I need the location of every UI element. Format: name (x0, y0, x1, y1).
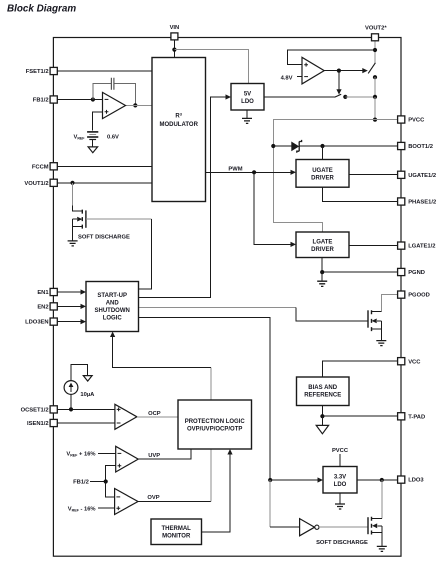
wire comparator arrow to lower switch (338, 71, 340, 90)
op-amp UVP comparator (116, 446, 139, 472)
op-amp OCP comparator (115, 404, 137, 429)
pin VIN (171, 33, 178, 40)
node BOOT junction (320, 144, 324, 148)
wire VOUT2* stub (374, 41, 376, 63)
svg-text:PWM: PWM (228, 166, 242, 172)
wire VREF+16% to UVP (98, 452, 116, 454)
svg-text:VOUT1/2: VOUT1/2 (24, 181, 48, 187)
svg-text:PHASE1/2: PHASE1/2 (408, 200, 436, 206)
pin LDO3 (398, 476, 405, 483)
wire UGATE driver output (349, 174, 398, 176)
svg-text:VCC: VCC (408, 359, 421, 365)
wire FB down to OVP - input (106, 482, 115, 497)
wire start-up to LDO3 enable (139, 317, 271, 480)
wire LGATE ground / PGND line (322, 258, 397, 273)
wire ISEN1/2 input (57, 422, 115, 424)
wire OCP output (137, 416, 178, 418)
wire 3.3V LDO output to LDO3 pin (357, 479, 398, 481)
wire FB1/2 node (90, 481, 106, 483)
transistor Q2 PGOOD FET (372, 312, 382, 341)
pin PVCC (398, 116, 405, 123)
wire thermal monitor to protection logic (202, 454, 231, 532)
wire BOOT1/2 line (299, 145, 398, 147)
wire soft discharge gate (86, 218, 151, 220)
node bias ground junction (320, 414, 324, 418)
svg-text:EN1: EN1 (37, 290, 49, 296)
svg-text:UGATE1/2: UGATE1/2 (408, 173, 436, 179)
wire start-up to 5V LDO enable (139, 97, 226, 298)
block R3 MODULATOR (152, 58, 206, 202)
ground under LGATE driver (321, 272, 323, 281)
wire PHASE line (323, 187, 398, 201)
wire EN2 arrow (57, 305, 81, 307)
svg-text:VIN: VIN (170, 25, 180, 31)
wire UVP output to protection logic (138, 449, 191, 459)
chip boundary frame (53, 38, 401, 557)
switch S2 blade (335, 94, 342, 97)
svg-text:SOFT DISCHARGE: SOFT DISCHARGE (316, 540, 368, 546)
node error amp output junction (133, 103, 137, 107)
node OCSET junction (69, 407, 73, 411)
battery VREF 0.6V (87, 131, 98, 133)
wire start-up gray output to PGOOD FET gate (139, 307, 296, 309)
svg-text:EN2: EN2 (37, 305, 48, 311)
svg-text:VREF - 16%: VREF - 16% (68, 506, 96, 512)
svg-text:REFERENCE: REFERENCE (304, 393, 341, 399)
svg-text:LGATE1/2: LGATE1/2 (408, 244, 435, 250)
wire comparator output to switch (324, 70, 362, 72)
ground under PGOOD FET (376, 341, 386, 346)
svg-text:T-PAD: T-PAD (408, 414, 425, 420)
node FB1/2 junction (104, 479, 108, 483)
wire switch S2 to rail (345, 96, 375, 98)
op-amp OVP comparator (115, 489, 138, 515)
wire VOUT down to soft discharge FET (72, 183, 74, 206)
node PVCC rail junction (373, 95, 377, 99)
block START-UP AND SHUTDOWN LOGIC (86, 282, 139, 332)
ground analog under bias (321, 416, 323, 425)
node LDO3EN junction (268, 478, 272, 482)
wire 4.8V comparator + input from VOUT2* (288, 50, 375, 65)
svg-text:LDO3EN: LDO3EN (25, 320, 49, 326)
pin BOOT1/2 (398, 142, 405, 149)
block 3.3V LDO (323, 467, 357, 494)
svg-text:4.8V: 4.8V (281, 76, 293, 82)
wire rail down to PVCC line (374, 97, 376, 120)
svg-text:0.6V: 0.6V (107, 135, 119, 141)
svg-text:LDO: LDO (334, 482, 347, 488)
ground under 5V LDO (246, 110, 248, 118)
svg-text:BOOT1/2: BOOT1/2 (408, 144, 433, 150)
svg-text:AND: AND (106, 301, 120, 307)
svg-text:DRIVER: DRIVER (311, 176, 334, 182)
wire error amp output to modulator (126, 104, 153, 106)
inverter U2 (300, 519, 315, 536)
block PROTECTION LOGIC (178, 400, 252, 449)
pin VOUT2* (372, 34, 379, 41)
svg-text:Block Diagram: Block Diagram (7, 3, 76, 14)
wire OVP output to protection logic (138, 501, 211, 503)
svg-text:3.3V: 3.3V (334, 474, 346, 480)
op-amp error amplifier (103, 92, 126, 118)
svg-text:VREF: VREF (73, 134, 85, 140)
ground analog under VREF (92, 140, 94, 147)
wire bias to T-PAD (322, 406, 397, 417)
pin EN1 (50, 288, 57, 295)
current source 10uA (70, 394, 72, 409)
wire PWM to LGATE driver (254, 172, 291, 244)
node PVCC line junction (373, 118, 377, 122)
ground under Q3 (377, 546, 387, 551)
pin PGND (398, 268, 405, 275)
wire PVCC pin line (273, 120, 397, 232)
svg-text:SOFT DISCHARGE: SOFT DISCHARGE (78, 234, 130, 240)
pin ISEN1/2 (50, 419, 57, 426)
wire protection logic to start-up shutdown (210, 367, 212, 400)
svg-text:FB1/2: FB1/2 (33, 98, 49, 104)
svg-text:PVCC: PVCC (332, 448, 349, 454)
wire PWM from modulator (206, 171, 291, 173)
block THERMAL MONITOR (151, 519, 202, 545)
pin VOUT1/2 (50, 179, 57, 186)
svg-text:MODULATOR: MODULATOR (159, 122, 198, 128)
svg-text:PGOOD: PGOOD (408, 293, 430, 299)
switch S1 blade (368, 63, 375, 74)
wire VOUT1/2 to modulator (57, 182, 152, 184)
svg-text:MONITOR: MONITOR (162, 534, 191, 540)
wire gate control from start-up logic (139, 219, 152, 289)
wire PVCC stub into 3.3V LDO (339, 454, 341, 467)
node PWM junction (252, 170, 256, 174)
op-amp 4.8V comparator (302, 57, 324, 84)
svg-text:PROTECTION LOGIC: PROTECTION LOGIC (185, 419, 246, 425)
wire down to inverter input (269, 480, 271, 527)
wire BOOT to UGATE driver top (322, 146, 324, 160)
node VIN branch (172, 48, 176, 52)
block 5V LDO (231, 84, 264, 111)
svg-text:UGATE: UGATE (312, 168, 333, 174)
wire VIN to 5V LDO (174, 50, 248, 84)
wire 5V LDO output (264, 96, 335, 98)
svg-text:PVCC: PVCC (408, 118, 425, 124)
wire VCC pin to bias (322, 361, 397, 377)
pin FSET1/2 (50, 67, 57, 74)
wire FCCM to modulator (57, 165, 152, 167)
wire switch S1 to rail (374, 77, 376, 97)
node diode anode junction (271, 144, 275, 148)
wire 4.8V stub (297, 76, 302, 78)
wire inverter output to Q3 gate (319, 526, 368, 528)
wire EN1 arrow (57, 291, 81, 293)
pin PHASE1/2 (398, 198, 405, 205)
svg-text:ISEN1/2: ISEN1/2 (27, 421, 49, 427)
svg-text:DRIVER: DRIVER (311, 247, 334, 253)
svg-text:FSET1/2: FSET1/2 (26, 69, 49, 75)
wire PGOOD pin to FET drain (381, 295, 397, 312)
pin LGATE1/2 (398, 242, 405, 249)
svg-text:OVP/UVP/OCP/OTP: OVP/UVP/OCP/OTP (187, 427, 242, 433)
svg-text:10µA: 10µA (80, 392, 95, 398)
block LGATE DRIVER (296, 232, 349, 258)
pin FCCM (50, 163, 57, 170)
ground under soft discharge FET (72, 233, 74, 241)
wire LDO3 down to Q3 drain (381, 480, 383, 519)
svg-text:LDO: LDO (241, 99, 254, 105)
node LDO3 output junction (380, 478, 384, 482)
diode D1 schottky to BOOT (273, 145, 292, 147)
wire VREF-16% to OVP (98, 507, 115, 509)
pin FB1/2 (50, 96, 57, 103)
svg-text:FCCM: FCCM (32, 164, 49, 170)
pin LDO3EN (50, 318, 57, 325)
svg-text:SHUTDOWN: SHUTDOWN (95, 308, 130, 314)
transistor Q3 soft discharge FET (372, 519, 382, 547)
capacitor C1 plates (111, 78, 114, 90)
node PGND junction (320, 270, 324, 274)
pin OCSET1/2 (50, 406, 57, 413)
pin UGATE1/2 (398, 171, 405, 178)
svg-text:LDO3: LDO3 (408, 478, 424, 484)
node switch S2 terminal (343, 95, 347, 99)
wire arrow into 3.3V LDO (270, 479, 318, 481)
wire LGATE driver output (349, 244, 398, 246)
pin PGOOD (398, 291, 405, 298)
svg-text:OVP: OVP (147, 495, 159, 501)
node switch S1 lower terminal (373, 75, 377, 79)
svg-text:5V: 5V (244, 91, 251, 97)
transistor Q1 soft discharge FET (73, 206, 83, 234)
node FB junction (91, 97, 95, 101)
node VOUT2* junction (373, 48, 377, 52)
wire UVP + input from FB (106, 466, 116, 482)
svg-text:START-UP: START-UP (97, 293, 127, 299)
svg-text:OCSET1/2: OCSET1/2 (21, 408, 49, 414)
wire OCSET1/2 input (57, 408, 115, 410)
pin VCC (398, 358, 405, 365)
wire LDO3EN arrow (57, 321, 81, 323)
wire FB1/2 input (57, 99, 102, 101)
wire VIN stub into modulator (173, 40, 175, 58)
svg-text:OCP: OCP (148, 411, 161, 417)
node VOUT junction (70, 181, 74, 185)
pin EN2 (50, 303, 57, 310)
svg-text:VREF + 16%: VREF + 16% (66, 451, 95, 457)
svg-text:UVP: UVP (148, 453, 160, 459)
wire feedback capacitor loop (93, 84, 135, 106)
block BIAS AND REFERENCE (297, 377, 350, 406)
ground under 3.3V LDO (339, 493, 341, 504)
svg-text:BIAS AND: BIAS AND (308, 385, 337, 391)
svg-text:PGND: PGND (408, 270, 425, 276)
svg-text:VOUT2*: VOUT2* (365, 25, 387, 31)
svg-text:FB1/2: FB1/2 (73, 480, 89, 486)
block UGATE DRIVER (296, 160, 349, 188)
node comparator output branch (337, 69, 341, 73)
svg-text:LGATE: LGATE (313, 240, 333, 246)
wire + input to VREF (93, 112, 103, 131)
pin T-PAD (398, 413, 405, 420)
wire FSET1/2 to modulator (57, 70, 152, 72)
svg-text:THERMAL: THERMAL (162, 526, 192, 532)
svg-text:LOGIC: LOGIC (103, 316, 123, 322)
